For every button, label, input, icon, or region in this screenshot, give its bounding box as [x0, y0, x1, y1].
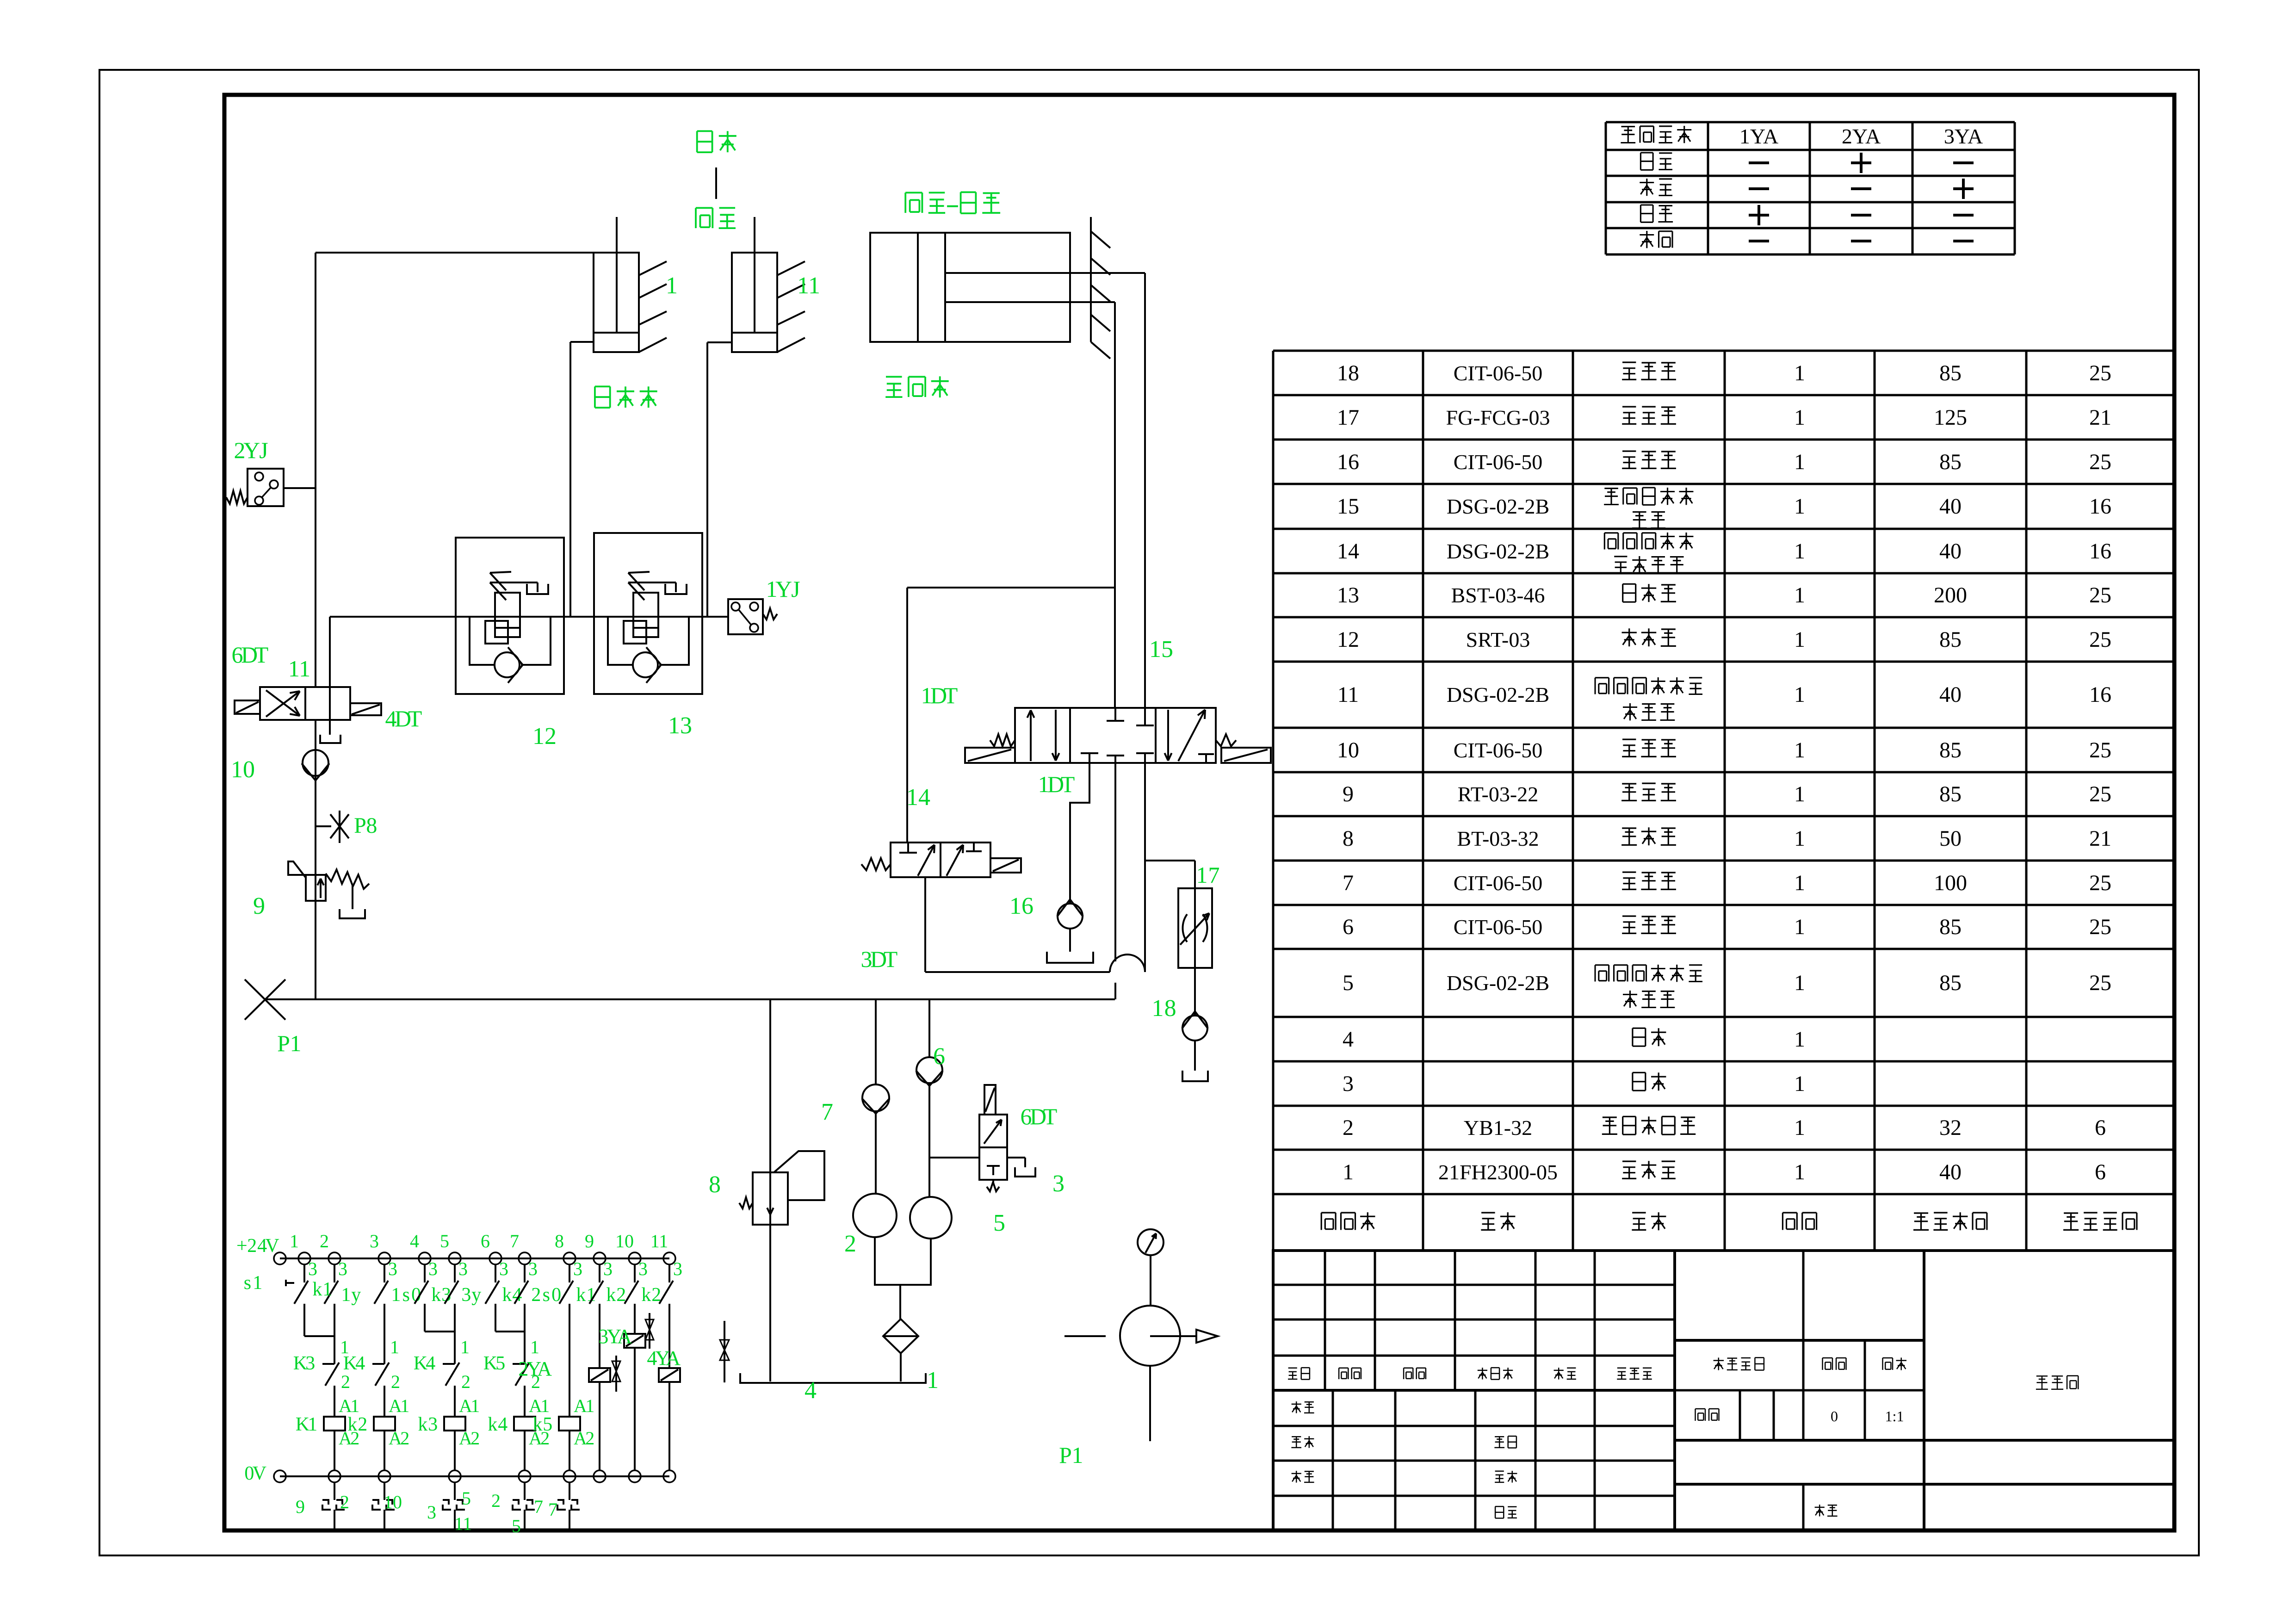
svg-text:1: 1	[1794, 1115, 1805, 1140]
tank 4	[740, 1373, 926, 1383]
svg-text:9: 9	[1343, 782, 1354, 806]
wire cylinder11 bottom port	[707, 342, 732, 617]
svg-text:2: 2	[400, 1428, 409, 1449]
label pin1 rung 7	[530, 1337, 539, 1357]
flow control valve 17	[1178, 888, 1212, 968]
svg-text:4: 4	[805, 1377, 817, 1404]
label K4	[414, 1353, 436, 1374]
terminal circle 0V rung 11	[663, 1470, 675, 1482]
separator bar	[715, 167, 717, 199]
svg-text:9: 9	[585, 1231, 594, 1251]
label A1 rung 3	[389, 1395, 409, 1416]
shutoff symbol near 3YA	[645, 1313, 654, 1349]
svg-text:18: 18	[1337, 361, 1359, 385]
wire rung 9 upper	[599, 1304, 600, 1368]
svg-text:1: 1	[391, 1284, 401, 1306]
wall mount with hatching	[1091, 217, 1110, 359]
limit switch rung 2	[322, 1482, 345, 1529]
svg-text:3: 3	[308, 1258, 317, 1279]
contact name k2	[606, 1284, 626, 1306]
label P8	[354, 813, 377, 838]
svg-text:5: 5	[512, 1516, 521, 1536]
label pin1 rung 5	[460, 1337, 470, 1357]
label pin1 rung 3	[390, 1337, 399, 1357]
rung1 merge wire	[304, 1304, 334, 1336]
limit label 7 rung 8	[548, 1499, 557, 1520]
wire valve15 left bottom port to check16	[1070, 763, 1089, 903]
svg-text:85: 85	[1939, 627, 1962, 652]
clamp cylinder 11 body	[732, 217, 805, 352]
label P1	[277, 1030, 301, 1056]
svg-text:1: 1	[308, 1414, 317, 1435]
svg-text:25: 25	[2089, 627, 2111, 652]
svg-text:2: 2	[1343, 1115, 1354, 1140]
wire valve15 right bottom port	[1144, 763, 1146, 972]
contact name k3	[431, 1284, 451, 1306]
label 2YA	[518, 1357, 552, 1380]
contact 3y rung 5	[445, 1264, 458, 1304]
label 3YA	[598, 1325, 632, 1348]
rung 7 wire label 3	[528, 1258, 538, 1279]
svg-text:85: 85	[1939, 971, 1962, 995]
svg-text:14: 14	[906, 784, 930, 811]
wire left main drop	[315, 253, 316, 687]
limit label 9 rung 2	[296, 1496, 305, 1517]
BOM parts table	[1273, 351, 2174, 1251]
relay contact K4 rung 5	[443, 1304, 459, 1417]
svg-text:3: 3	[1052, 1171, 1064, 1197]
svg-text:7: 7	[821, 1099, 833, 1125]
wire cylinder1 bottom port	[570, 342, 594, 617]
rung 4 wire label 3	[428, 1258, 438, 1279]
rung 2 number label	[320, 1231, 329, 1251]
label pin1 rung 2	[340, 1337, 349, 1357]
rung 6 number label	[481, 1231, 490, 1251]
svg-text:1: 1	[350, 1395, 359, 1416]
rung 8 wire label 3	[573, 1258, 582, 1279]
rung 1 terminal circle	[298, 1252, 310, 1264]
label s1	[244, 1272, 263, 1294]
label 18	[1152, 995, 1176, 1022]
svg-text:3: 3	[338, 1258, 347, 1279]
svg-text:85: 85	[1939, 361, 1962, 385]
svg-text:DSG-02-2B: DSG-02-2B	[1447, 683, 1549, 706]
svg-text:16: 16	[2089, 539, 2111, 564]
check valve 6	[916, 999, 943, 1197]
+24V rail	[280, 1258, 669, 1259]
relay contact K4 rung 3	[372, 1304, 389, 1417]
svg-text:3: 3	[428, 1258, 438, 1279]
label 0V	[244, 1463, 266, 1484]
feed cylinder body	[870, 233, 1070, 342]
terminal circle 0V rung 5	[449, 1470, 461, 1482]
label 6DT	[232, 642, 269, 668]
limit switch rung 3	[372, 1482, 395, 1529]
svg-text:50: 50	[1939, 826, 1962, 851]
wire rod end to valve15 port B	[1144, 273, 1146, 709]
svg-text:5: 5	[495, 1353, 505, 1374]
pump 2 left	[853, 1194, 897, 1237]
svg-text:RT-03-22: RT-03-22	[1458, 782, 1538, 806]
svg-text:16: 16	[1337, 450, 1359, 474]
svg-text:16: 16	[2089, 682, 2111, 707]
label A1 rung 5	[459, 1395, 480, 1416]
relay coil k3	[444, 1417, 465, 1431]
wire rung 11 to 0V	[668, 1382, 670, 1470]
svg-text:9: 9	[253, 893, 265, 919]
label K3	[293, 1353, 316, 1374]
svg-text:2: 2	[341, 1371, 350, 1392]
svg-text:2: 2	[358, 1414, 367, 1435]
svg-text:P: P	[354, 813, 366, 838]
wire rung 3 to 0V	[384, 1431, 385, 1470]
svg-text:1YA: 1YA	[1739, 124, 1778, 148]
limit label 3 rung 5	[427, 1502, 436, 1523]
label pin2 rung 3	[391, 1371, 400, 1392]
wire rung 7 to 0V	[524, 1431, 526, 1470]
svg-text:1: 1	[1794, 871, 1805, 895]
rung 10 number label	[615, 1231, 634, 1251]
wire rung 10 to 0V	[634, 1348, 636, 1470]
limit label 7 rung 7	[534, 1496, 543, 1517]
label 夹紧	[697, 131, 736, 152]
contact k1 rung 1	[286, 1264, 308, 1304]
label pin2 rung 2	[341, 1371, 350, 1392]
label 14	[906, 784, 930, 811]
terminal circle 0V rung 9	[594, 1470, 606, 1482]
shutoff symbol near 2YA	[612, 1356, 620, 1392]
svg-text:1: 1	[927, 1367, 939, 1394]
svg-text:21: 21	[2089, 405, 2111, 430]
svg-text:5: 5	[462, 1488, 471, 1509]
svg-text:k: k	[418, 1414, 427, 1435]
svg-text:3: 3	[603, 1258, 613, 1279]
label 3	[1052, 1171, 1064, 1197]
svg-text:BST-03-46: BST-03-46	[1451, 583, 1545, 607]
contact name k1 rung1	[312, 1279, 332, 1300]
wire rod end to valve15 port A	[1114, 302, 1116, 709]
solenoid 4YA	[659, 1368, 680, 1382]
label coil k5	[532, 1414, 552, 1435]
label A2 rung 7	[529, 1428, 550, 1449]
svg-text:A: A	[537, 1357, 552, 1380]
svg-text:k: k	[532, 1414, 542, 1435]
svg-text:1: 1	[1794, 583, 1805, 607]
wire rung 10 upper	[634, 1304, 636, 1334]
svg-text:V: V	[253, 1463, 266, 1484]
svg-text:1: 1	[1794, 1160, 1805, 1184]
label coil K1	[296, 1414, 318, 1435]
label A1 rung 7	[529, 1395, 550, 1416]
svg-text:DSG-02-2B: DSG-02-2B	[1447, 971, 1549, 995]
valve14 solenoid	[990, 858, 1021, 873]
svg-text:11: 11	[454, 1513, 472, 1534]
label 进给缸	[885, 376, 949, 397]
contact k1 rung 8	[559, 1264, 573, 1304]
svg-text:11: 11	[1337, 682, 1359, 707]
svg-text:8: 8	[709, 1171, 721, 1198]
label 11 valve	[288, 656, 310, 681]
svg-text:7: 7	[1208, 862, 1220, 888]
label 7	[821, 1099, 833, 1125]
label 1YJ	[766, 576, 800, 602]
svg-text:Y: Y	[775, 576, 792, 602]
label A2 rung 5	[459, 1428, 480, 1449]
svg-text:1: 1	[1794, 450, 1805, 474]
svg-text:1: 1	[1794, 738, 1805, 762]
relay coil k2	[374, 1417, 395, 1431]
rung 2 terminal circle	[328, 1252, 340, 1264]
reducing valve 9	[288, 861, 369, 918]
label A2 rung 8	[574, 1428, 594, 1449]
svg-text:T: T	[944, 682, 958, 708]
pressure relay 2YJ	[226, 469, 316, 506]
label 6DT pump	[1021, 1103, 1058, 1129]
svg-text:k: k	[431, 1284, 441, 1306]
svg-text:7: 7	[534, 1496, 543, 1517]
label K4	[343, 1353, 365, 1374]
contact name 1y	[341, 1284, 361, 1306]
solenoid valve 11 body	[260, 687, 350, 720]
contact 1y rung 2	[324, 1264, 338, 1304]
svg-text:A: A	[617, 1325, 632, 1348]
svg-text:12: 12	[1337, 627, 1359, 652]
svg-text:25: 25	[2089, 361, 2111, 385]
svg-text:10: 10	[384, 1492, 402, 1512]
svg-text:3: 3	[458, 1258, 468, 1279]
limit switch rung 8	[557, 1482, 580, 1529]
svg-text:5: 5	[993, 1210, 1005, 1236]
svg-text:15: 15	[1337, 494, 1359, 519]
label +24V	[236, 1235, 279, 1257]
svg-text:6: 6	[2095, 1160, 2106, 1184]
rung 8 terminal circle	[563, 1252, 576, 1264]
svg-text:10: 10	[615, 1231, 634, 1251]
check valve 10	[302, 750, 329, 781]
check valve 7	[862, 999, 890, 1194]
svg-text:k: k	[347, 1414, 357, 1435]
svg-text:1: 1	[1794, 682, 1805, 707]
limit label 5 rung 7	[512, 1516, 521, 1536]
svg-text:7: 7	[510, 1231, 519, 1251]
svg-text:2: 2	[844, 1231, 856, 1257]
label 前进-后退	[905, 192, 1000, 213]
label coil k4	[488, 1414, 507, 1435]
svg-text:12: 12	[532, 723, 557, 750]
svg-text:1: 1	[470, 1395, 480, 1416]
svg-text:2: 2	[247, 1235, 257, 1257]
svg-text:3: 3	[573, 1258, 582, 1279]
svg-text:8: 8	[555, 1231, 564, 1251]
wire valve15 mid bottom port to bus	[1114, 763, 1116, 999]
contact k2 rung 10	[625, 1264, 638, 1304]
label A1 rung 2	[339, 1395, 359, 1416]
svg-text:9: 9	[296, 1496, 305, 1517]
rung 3 terminal circle	[378, 1252, 390, 1264]
svg-text:1: 1	[460, 1337, 470, 1357]
main line through valves	[330, 616, 728, 618]
label 夹紧缸	[595, 386, 657, 408]
svg-text:1: 1	[1794, 971, 1805, 995]
label 9	[253, 893, 265, 919]
solenoid valve 5	[930, 1085, 1035, 1191]
rung 5 terminal circle	[449, 1252, 461, 1264]
rung 3 number label	[370, 1231, 379, 1251]
contact k2 rung 9	[589, 1264, 603, 1304]
svg-text:8: 8	[1164, 995, 1176, 1022]
svg-text:T: T	[884, 946, 898, 972]
svg-text:3: 3	[461, 1284, 471, 1306]
contact 1s0 rung 3	[374, 1264, 388, 1304]
relay coil k4	[514, 1417, 535, 1431]
svg-text:21: 21	[2089, 826, 2111, 851]
svg-text:1: 1	[1794, 361, 1805, 385]
svg-text:T: T	[408, 706, 422, 731]
svg-text:4: 4	[410, 1231, 419, 1251]
label 4DT	[385, 706, 422, 731]
svg-text:85: 85	[1939, 450, 1962, 474]
pressure bus line	[265, 998, 1115, 1000]
svg-text:13: 13	[1337, 583, 1359, 607]
svg-text:17: 17	[1337, 405, 1359, 430]
svg-text:3: 3	[305, 1353, 315, 1374]
svg-text:11: 11	[650, 1231, 668, 1251]
rung 9 number label	[585, 1231, 594, 1251]
label 12	[532, 723, 557, 750]
svg-text:1: 1	[1794, 405, 1805, 430]
svg-text:CIT-06-50: CIT-06-50	[1454, 450, 1543, 474]
svg-text:T: T	[1043, 1103, 1058, 1129]
rung 10 terminal circle	[629, 1252, 641, 1264]
wire valve to check 10	[315, 720, 316, 999]
svg-text:10: 10	[1337, 738, 1359, 762]
label 2	[844, 1231, 856, 1257]
svg-text:P: P	[1059, 1442, 1072, 1468]
label 2YJ	[234, 437, 268, 463]
limit label 5 rung 5	[462, 1488, 471, 1509]
svg-text:25: 25	[2089, 971, 2111, 995]
pump suction lines	[875, 1237, 931, 1319]
contact name 3y	[461, 1284, 481, 1306]
contact k3 rung 4	[415, 1264, 428, 1304]
svg-text:16: 16	[1009, 893, 1034, 919]
pressure gauge	[1138, 1229, 1163, 1255]
label 4	[805, 1377, 817, 1404]
svg-text:1: 1	[1794, 494, 1805, 519]
svg-text:k: k	[576, 1284, 586, 1306]
svg-text:25: 25	[2089, 782, 2111, 806]
limit label 11 rung 5	[454, 1513, 472, 1534]
svg-text:40: 40	[1939, 682, 1962, 707]
svg-text:DSG-02-2B: DSG-02-2B	[1447, 539, 1549, 563]
svg-text:FG-FCG-03: FG-FCG-03	[1446, 406, 1550, 429]
valve15 left solenoid 1DT	[965, 748, 1015, 763]
label 15	[1149, 636, 1173, 663]
branch to flow valve 17	[1145, 861, 1195, 888]
svg-text:3: 3	[673, 1258, 682, 1279]
rung 4 number label	[410, 1231, 419, 1251]
svg-text:2: 2	[491, 1490, 501, 1511]
svg-text:16: 16	[2089, 494, 2111, 519]
label A2 rung 3	[389, 1428, 409, 1449]
rung 5 wire label 3	[458, 1258, 468, 1279]
svg-text:DSG-02-2B: DSG-02-2B	[1447, 495, 1549, 518]
limit label 2 rung 7	[491, 1490, 501, 1511]
svg-text:32: 32	[1939, 1115, 1962, 1140]
svg-text:25: 25	[2089, 738, 2111, 762]
contact rung 11	[659, 1264, 673, 1304]
svg-text:CIT-06-50: CIT-06-50	[1454, 871, 1543, 895]
label A1 rung 8	[574, 1395, 594, 1416]
solenoid 2YA	[589, 1368, 610, 1382]
svg-text:25: 25	[2089, 871, 2111, 895]
svg-text:s: s	[543, 1284, 550, 1306]
svg-text:y: y	[471, 1284, 481, 1306]
svg-text:1: 1	[1794, 1072, 1805, 1096]
svg-text:7: 7	[548, 1499, 557, 1520]
contact name 2s0	[531, 1284, 561, 1306]
contact name k4	[502, 1284, 522, 1306]
sequence valve 12	[456, 538, 564, 694]
P1 port symbol	[245, 979, 285, 1020]
svg-text:y: y	[351, 1284, 361, 1306]
check valve 16	[1047, 899, 1093, 963]
svg-text:CIT-06-50: CIT-06-50	[1454, 738, 1543, 762]
svg-text:6: 6	[1343, 915, 1354, 939]
svg-text:25: 25	[2089, 915, 2111, 939]
label 1DT upper	[921, 682, 958, 708]
terminal circle 0V rung 2	[328, 1470, 340, 1482]
label pin2 rung 5	[461, 1371, 470, 1392]
wire rung 11 upper	[668, 1304, 670, 1368]
svg-text:k: k	[312, 1279, 322, 1300]
svg-text:85: 85	[1939, 782, 1962, 806]
svg-text:10: 10	[231, 756, 255, 783]
pressure source circle	[1064, 1255, 1218, 1441]
svg-text:1: 1	[530, 1337, 539, 1357]
inner drawing frame	[224, 95, 2174, 1530]
svg-text:3: 3	[528, 1258, 538, 1279]
valve15 left spring	[990, 734, 1015, 746]
terminal +24V	[274, 1252, 286, 1264]
svg-text:1: 1	[1794, 826, 1805, 851]
pump 2 right	[910, 1197, 952, 1239]
limit switch rung 7	[513, 1482, 535, 1529]
directional valve 15 body	[1015, 708, 1216, 763]
contact 2s0 rung 7	[514, 1264, 528, 1304]
svg-text:k: k	[502, 1284, 512, 1306]
svg-text:1: 1	[390, 1337, 399, 1357]
wire valve14 output with crossover hop	[925, 877, 1145, 972]
svg-text:+: +	[236, 1235, 248, 1257]
svg-text:1: 1	[1072, 1442, 1083, 1468]
valve15 right solenoid	[1221, 748, 1271, 763]
rung 7 terminal circle	[519, 1252, 531, 1264]
svg-text:1: 1	[585, 1395, 594, 1416]
label 17	[1196, 862, 1220, 888]
rung 4 terminal circle	[419, 1252, 431, 1264]
svg-text:J: J	[791, 576, 800, 602]
svg-text:40: 40	[1939, 1160, 1962, 1184]
relay coil k5	[559, 1417, 580, 1431]
svg-text:2: 2	[585, 1428, 594, 1449]
relay coil K1	[324, 1417, 345, 1431]
rung 9 terminal circle	[594, 1252, 606, 1264]
svg-text:2: 2	[391, 1371, 400, 1392]
svg-text:1: 1	[341, 1284, 351, 1306]
0V rail	[280, 1475, 669, 1477]
limit label 2 rung 2	[340, 1492, 349, 1512]
